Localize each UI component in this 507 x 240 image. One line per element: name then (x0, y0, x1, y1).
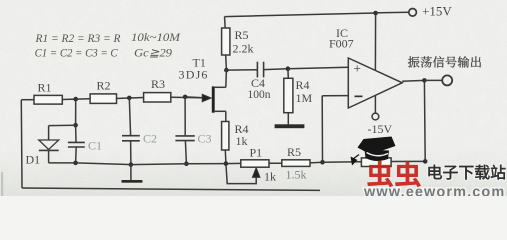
svg-text:R3: R3 (151, 77, 165, 91)
svg-text:100n: 100n (248, 89, 271, 101)
svg-text:Gc≧29: Gc≧29 (134, 48, 172, 60)
svg-text:-15V: -15V (368, 122, 393, 136)
svg-text:3DJ6: 3DJ6 (179, 68, 209, 82)
svg-text:R2: R2 (97, 79, 111, 93)
svg-text:10k~10M: 10k~10M (131, 32, 182, 44)
svg-text:2.2k: 2.2k (233, 42, 254, 56)
svg-text:1k: 1k (264, 170, 276, 184)
svg-text:R4: R4 (296, 78, 310, 92)
svg-text:P1: P1 (250, 146, 263, 160)
svg-text:C2: C2 (143, 132, 157, 146)
svg-text:C3: C3 (198, 132, 212, 146)
svg-text:D1: D1 (26, 153, 41, 167)
svg-text:F007: F007 (329, 37, 354, 51)
svg-text:1k: 1k (236, 134, 248, 148)
svg-text:+: + (354, 61, 361, 76)
svg-text:C1 = C2 = C3 = C: C1 = C2 = C3 = C (35, 46, 119, 60)
svg-text:1M: 1M (296, 91, 313, 105)
svg-text:C1: C1 (88, 139, 102, 153)
svg-text:+15V: +15V (422, 4, 452, 19)
svg-text:R1 = R2 = R3 = R: R1 = R2 = R3 = R (35, 31, 122, 45)
svg-text:www.eeworm.com: www.eeworm.com (363, 185, 505, 197)
svg-text:1.5k: 1.5k (286, 167, 307, 181)
svg-text:R5: R5 (287, 145, 301, 159)
svg-text:R1: R1 (38, 81, 52, 95)
svg-text:R5: R5 (235, 28, 249, 42)
